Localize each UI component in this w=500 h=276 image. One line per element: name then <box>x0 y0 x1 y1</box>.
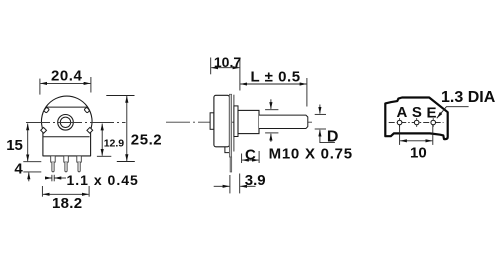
svg-text:M10 X 0.75: M10 X 0.75 <box>269 145 353 162</box>
dim 10 extension right <box>432 125 434 145</box>
dim 20.4 line <box>40 82 90 84</box>
pot body outline (circle + base) <box>41 96 92 156</box>
dim C extension left <box>241 154 243 164</box>
dim 25.2 line <box>126 96 128 161</box>
svg-text:10: 10 <box>410 144 427 161</box>
svg-text:1.1 x 0.45: 1.1 x 0.45 <box>67 172 139 188</box>
hole center line <box>389 122 444 124</box>
dim 4 arrow <box>28 173 30 182</box>
dim 10 extension left <box>399 125 401 145</box>
cover chord line <box>46 106 88 108</box>
dim 20.4 extension right <box>90 77 92 93</box>
svg-text:E: E <box>427 105 437 122</box>
svg-text:25.2: 25.2 <box>131 131 162 148</box>
nut seat plate <box>234 106 238 137</box>
svg-text:4: 4 <box>14 160 23 177</box>
terminal 1 leg <box>52 162 54 172</box>
dim 20.4 extension left <box>39 79 41 95</box>
dim 1.1 left tick <box>51 175 53 182</box>
dim 18.2 extension right <box>88 186 90 197</box>
svg-text:18.2: 18.2 <box>52 195 82 212</box>
hole S tick <box>416 118 418 127</box>
dim L extension right <box>306 78 308 107</box>
body (disc side) <box>214 95 230 147</box>
dim D bottom arrow and leader <box>320 131 335 142</box>
terminal 2 shoulder <box>64 156 69 162</box>
dim 25.2 bottom reference <box>117 161 135 163</box>
notch lower-right <box>87 127 93 133</box>
dim 1.1 left arrow <box>45 177 52 179</box>
terminal 1 shoulder <box>51 156 56 162</box>
dim 3.9 right arrow <box>240 185 255 187</box>
rear boss <box>210 113 214 130</box>
leader 1.3 DIA <box>437 107 469 119</box>
svg-text:D: D <box>327 128 339 145</box>
threaded bushing <box>238 110 259 133</box>
dim 3.9 extension right <box>239 174 241 194</box>
dim D bottom bar <box>315 128 326 130</box>
dim 15 line <box>27 124 29 162</box>
terminal 2 leg <box>65 162 67 172</box>
svg-text:C: C <box>245 146 256 163</box>
dim 10.7 extension left <box>210 58 212 75</box>
svg-text:15: 15 <box>6 137 23 154</box>
dim 3.9 left arrow <box>214 185 230 187</box>
center line (front view) <box>26 122 126 124</box>
dim C line <box>242 159 259 161</box>
M10 top bar <box>265 109 278 111</box>
dim 1.1 right arrow <box>55 177 67 179</box>
svg-text:10.7: 10.7 <box>214 54 241 70</box>
notch upper-left <box>44 107 50 113</box>
hole A <box>397 120 402 125</box>
dim 4 upper reference line <box>23 161 41 163</box>
dim 3.9 extension left <box>229 175 231 193</box>
M10 bottom arrow <box>270 134 272 142</box>
body lower step <box>225 147 230 153</box>
svg-text:12.9: 12.9 <box>104 137 125 149</box>
shaft <box>259 115 308 128</box>
svg-text:A: A <box>397 104 408 121</box>
dim 25.2 top reference <box>106 95 134 97</box>
svg-text:20.4: 20.4 <box>51 68 83 85</box>
hole E tick <box>432 118 434 127</box>
terminal 3 leg <box>78 162 80 172</box>
hole S <box>414 120 419 125</box>
svg-text:3.9: 3.9 <box>245 172 266 189</box>
svg-text:L ± 0.5: L ± 0.5 <box>251 68 301 85</box>
hole A tick <box>399 118 401 127</box>
dim 12.9 bottom reference <box>97 155 111 157</box>
dim 18.2 extension left <box>41 186 43 197</box>
center line (side view) <box>166 121 312 123</box>
cover outline <box>385 98 447 140</box>
terminal 3 shoulder <box>77 156 82 162</box>
side terminal pin <box>230 157 232 172</box>
dim 4 lower reference line <box>23 171 41 173</box>
dim 10.7 extension right <box>239 58 241 91</box>
M10 top arrow <box>270 99 272 109</box>
dim 10.7 line <box>211 67 239 69</box>
notch upper-right <box>84 107 90 113</box>
bracket rear face line <box>233 95 235 152</box>
dim 12.9 line <box>101 124 103 156</box>
dim D top arrow <box>319 105 321 114</box>
shaft inner circle <box>60 117 70 127</box>
mounting plate strip <box>229 94 231 157</box>
M10 bottom bar <box>265 132 278 134</box>
dim D top bar <box>315 113 326 115</box>
shaft outer circle <box>58 115 74 131</box>
notch lower-left <box>41 127 47 133</box>
svg-text:S: S <box>412 104 422 121</box>
dim 1.1 right tick <box>53 175 55 182</box>
dim 10 line <box>400 140 432 142</box>
base top edge <box>43 136 89 138</box>
dim 18.2 line <box>43 193 89 195</box>
dim L line <box>240 83 306 85</box>
dim C extension right <box>258 151 260 163</box>
svg-text:1.3 DIA: 1.3 DIA <box>441 89 496 106</box>
hole E <box>431 120 436 125</box>
